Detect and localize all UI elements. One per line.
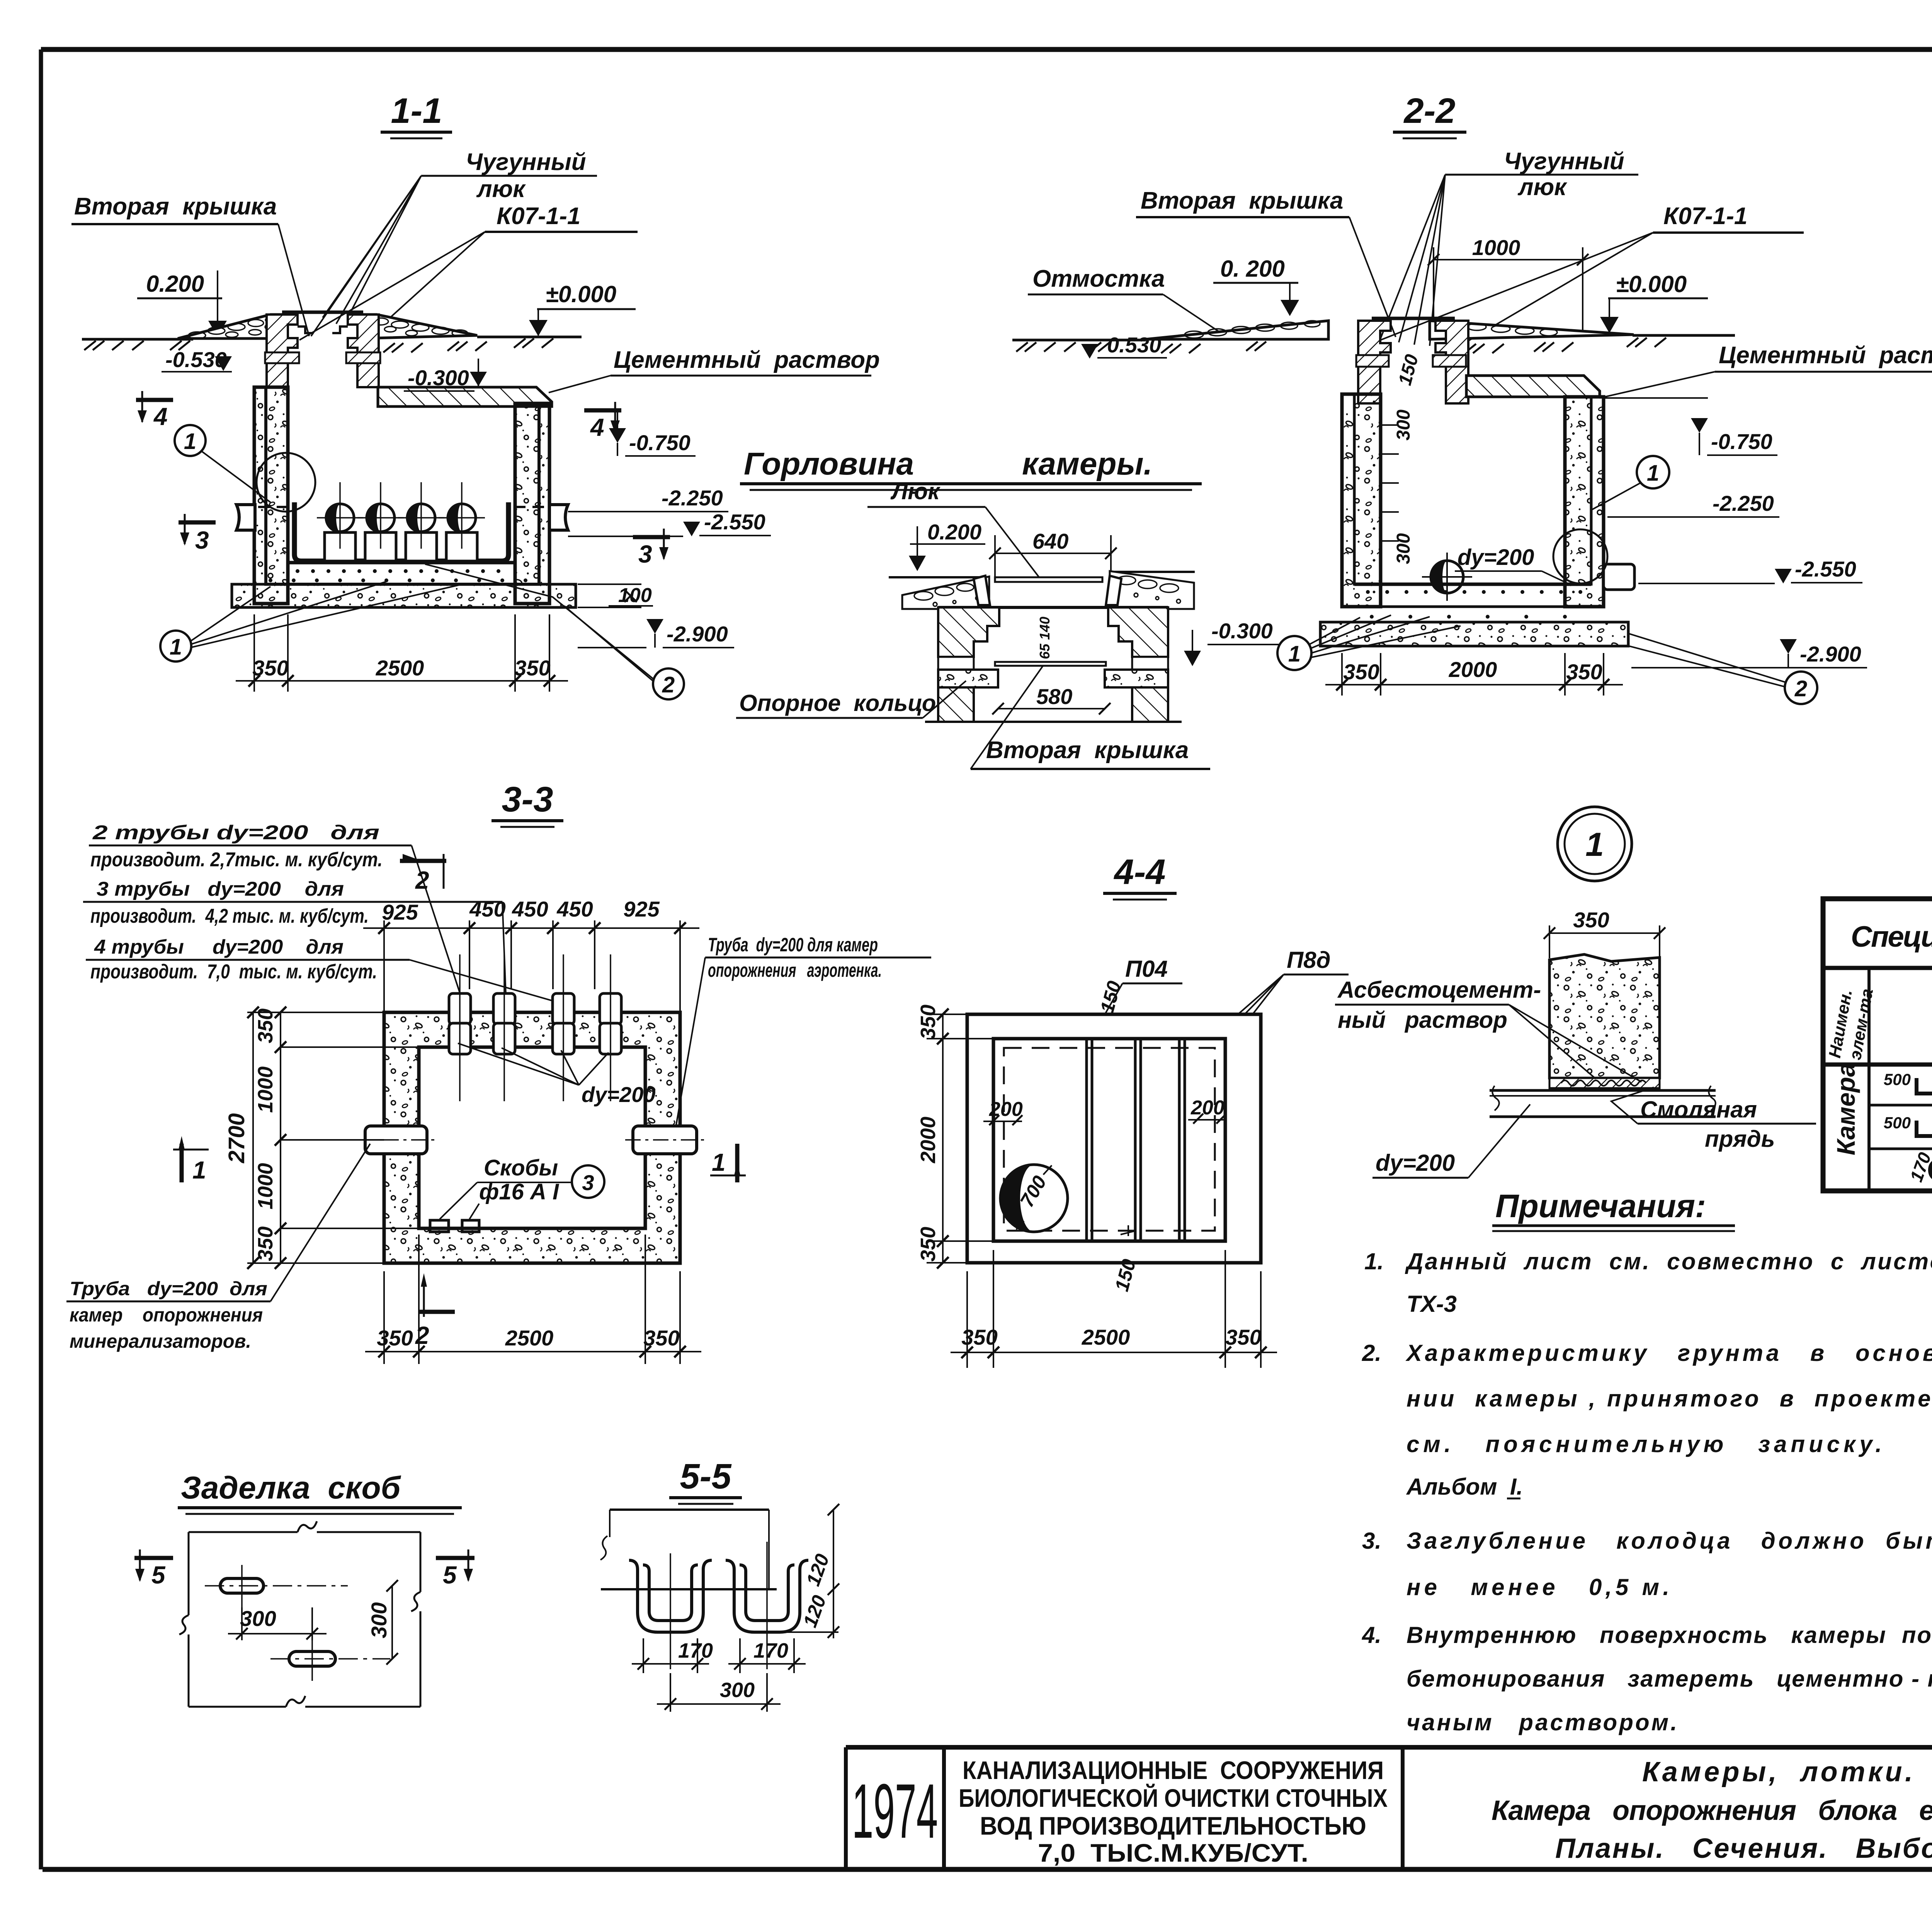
- svg-text:350: 350: [514, 656, 550, 680]
- svg-text:-2.900: -2.900: [1800, 642, 1861, 666]
- svg-text:-0.750: -0.750: [629, 430, 690, 455]
- top slab hatched band with right slope: [1466, 376, 1600, 397]
- asbestos packing strip with spring: [1549, 1078, 1660, 1088]
- dashed waterline: [258, 506, 289, 508]
- svg-text:чаным раствором.: чаным раствором.: [1406, 1709, 1677, 1735]
- section mark 2 top: [400, 854, 446, 889]
- svg-text:300: 300: [367, 1602, 391, 1638]
- svg-text:350: 350: [1566, 660, 1602, 684]
- svg-text:Скобы: Скобы: [484, 1155, 558, 1180]
- svg-text:Труба dy=200 для камер: Труба dy=200 для камер: [708, 934, 878, 956]
- left brick wall: [938, 607, 999, 657]
- circled 2 right with leaders: [1785, 672, 1817, 704]
- svg-text:7,0 ТЫС.М.КУБ/СУТ.: 7,0 ТЫС.М.КУБ/СУТ.: [1038, 1838, 1308, 1867]
- ground hatch: [1016, 338, 1666, 353]
- circled 1 top left with leader: [175, 425, 206, 456]
- svg-text:350: 350: [917, 1227, 940, 1262]
- svg-text:-2.550: -2.550: [1795, 557, 1856, 581]
- svg-text:2700: 2700: [224, 1113, 249, 1163]
- svg-text:прядь: прядь: [1705, 1126, 1775, 1152]
- svg-text:1: 1: [1585, 826, 1604, 863]
- svg-text:люк: люк: [476, 176, 526, 202]
- outer square: [967, 1014, 1261, 1263]
- ground line left and right: [82, 338, 193, 341]
- svg-text:нии камеры , принятого в пр: нии камеры , принятого в проекте,: [1406, 1386, 1932, 1412]
- section mark 3 right: [633, 529, 670, 560]
- sketches in Эскиз column: [1917, 1078, 1932, 1181]
- svg-text:450: 450: [512, 897, 548, 921]
- svg-text:2.: 2.: [1362, 1340, 1381, 1366]
- svg-text:-2.250: -2.250: [1713, 491, 1774, 515]
- plan square walls: [384, 1012, 680, 1263]
- svg-text:2: 2: [1794, 676, 1807, 701]
- section mark 4 right: [584, 402, 621, 434]
- svg-text:350: 350: [254, 1226, 277, 1261]
- svg-text:2000: 2000: [1449, 657, 1497, 682]
- circled 1 with fan leaders: [1277, 636, 1311, 670]
- svg-text:Асбестоцемент-: Асбестоцемент-: [1337, 977, 1541, 1003]
- svg-text:производит. 7,0 тыс. м. куб/: производит. 7,0 тыс. м. куб/сут.: [90, 961, 377, 983]
- side pipes: [365, 1126, 697, 1154]
- svg-text:4: 4: [153, 403, 168, 430]
- svg-text:ТХ-3: ТХ-3: [1406, 1291, 1457, 1317]
- svg-text:170: 170: [678, 1639, 713, 1662]
- svg-text:640: 640: [1032, 529, 1068, 553]
- svg-text:Камера: Камера: [1832, 1063, 1860, 1155]
- svg-text:4 трубы dy=200 для: 4 трубы dy=200 для: [94, 936, 344, 958]
- manhole cover profile on top: [282, 311, 363, 314]
- svg-text:dy=200: dy=200: [1376, 1150, 1455, 1176]
- section marks 1 left/right: [173, 1136, 209, 1182]
- svg-text:люк: люк: [1517, 174, 1567, 201]
- right brick wall: [1108, 607, 1168, 657]
- svg-text:-2.900: -2.900: [667, 622, 728, 646]
- bottom ground line: [925, 721, 1182, 723]
- svg-text:200: 200: [989, 1098, 1023, 1121]
- svg-text:0.200: 0.200: [927, 520, 981, 544]
- bottom dim chain: [365, 1235, 701, 1364]
- svg-text:5-5: 5-5: [680, 1457, 732, 1496]
- cover plate: [995, 577, 1102, 582]
- svg-text:2500: 2500: [376, 656, 424, 680]
- slots: [220, 1578, 264, 1593]
- left wall: [254, 387, 288, 604]
- foundation slab: [1320, 622, 1628, 646]
- top ring band: [938, 606, 1168, 609]
- concrete pier: [1549, 954, 1660, 1078]
- svg-text:Камера опорожнения блока: Камера опорожнения блока емкостей.: [1492, 1795, 1932, 1826]
- svg-text:925: 925: [382, 900, 418, 924]
- svg-text:450: 450: [556, 897, 593, 921]
- project name stencil text: [959, 1756, 1388, 1867]
- svg-text:Люк: Люк: [890, 478, 940, 504]
- neck walls with hatch: [267, 315, 298, 387]
- open detail circle on right wall: [1553, 529, 1607, 583]
- pipe circle half filled: [1431, 561, 1463, 593]
- ground hatch ticks: [84, 338, 553, 352]
- svg-text:1: 1: [170, 634, 182, 660]
- svg-text:0. 200: 0. 200: [1220, 256, 1285, 282]
- svg-text:КАНАЛИЗАЦИОННЫЕ СООРУЖЕНИЯ: КАНАЛИЗАЦИОННЫЕ СООРУЖЕНИЯ: [963, 1756, 1384, 1784]
- ground lines: [889, 576, 989, 578]
- ground lines: [1012, 339, 1146, 342]
- circled 1 bottom with leaders: [160, 631, 191, 662]
- svg-text:бетонирования затереть цем: бетонирования затереть цементно - пес-: [1406, 1666, 1932, 1692]
- svg-text:Заделка скоб: Заделка скоб: [181, 1470, 401, 1505]
- svg-text:Вторая крышка: Вторая крышка: [74, 193, 277, 220]
- right staple U: [726, 1560, 808, 1632]
- svg-text:300: 300: [1393, 410, 1414, 440]
- circled 1 right with leader: [1637, 456, 1669, 488]
- svg-text:2: 2: [415, 866, 429, 894]
- 150 ticks on inner left wall: [1381, 425, 1399, 541]
- svg-text:350: 350: [961, 1325, 997, 1349]
- svg-text:500: 500: [1884, 1114, 1911, 1132]
- svg-text:ный раствор: ный раствор: [1338, 1007, 1507, 1033]
- svg-text:-0.300: -0.300: [1211, 619, 1273, 643]
- svg-text:К07-1-1: К07-1-1: [497, 203, 580, 230]
- svg-text:1000: 1000: [254, 1163, 277, 1209]
- second cover plate: [995, 662, 1106, 666]
- svg-text:350: 350: [643, 1326, 679, 1350]
- svg-text:2000: 2000: [917, 1117, 940, 1163]
- slab joint double lines: [1087, 1039, 1185, 1241]
- interior floor & slab: [1354, 583, 1591, 586]
- svg-text:Вторая крышка: Вторая крышка: [986, 737, 1189, 764]
- svg-text:3-3: 3-3: [502, 780, 553, 819]
- svg-text:1000: 1000: [1472, 235, 1520, 260]
- svg-text:±0.000: ±0.000: [546, 281, 616, 307]
- svg-text:2: 2: [415, 1321, 429, 1349]
- svg-text:0.200: 0.200: [146, 271, 204, 297]
- svg-text:5: 5: [443, 1561, 457, 1589]
- svg-text:минерализаторов.: минерализаторов.: [70, 1330, 251, 1352]
- svg-text:Чугунный: Чугунный: [1504, 148, 1624, 175]
- detail circle on left wall: [257, 453, 315, 512]
- label Труба dy=200 для камер опорожнения аэротенка: [708, 934, 882, 981]
- wire leader to hatch cover: [336, 176, 421, 324]
- underline I in Альбом I. note2: [1507, 1498, 1520, 1500]
- pipes inside: [325, 504, 477, 561]
- circled 2 right with leaders: [653, 668, 684, 699]
- svg-text:1: 1: [712, 1148, 726, 1176]
- center lines through staples: [670, 1542, 767, 1669]
- surface line: [601, 1588, 777, 1590]
- svg-text:2500: 2500: [505, 1326, 554, 1350]
- svg-text:2500: 2500: [1082, 1325, 1130, 1349]
- side pipe stubs: [236, 505, 568, 530]
- svg-text:100: 100: [618, 584, 652, 607]
- svg-text:-0.750: -0.750: [1711, 429, 1772, 454]
- section mark 2 bottom: [418, 1273, 455, 1317]
- svg-text:1: 1: [1647, 461, 1659, 486]
- svg-text:Заглубление колодца должно: Заглубление колодца должно быть: [1406, 1528, 1932, 1554]
- label Труба dy=200 для камер опорожнения минерализаторов: [70, 1278, 267, 1352]
- left dim chain: [247, 1012, 419, 1263]
- pipe labels left: [90, 821, 383, 983]
- interior floor and slab: [288, 561, 515, 565]
- section marks 5: [134, 1549, 173, 1582]
- svg-text:350: 350: [1225, 1325, 1261, 1349]
- svg-text:350: 350: [1573, 908, 1609, 932]
- svg-text:±0.000: ±0.000: [1616, 271, 1687, 297]
- dim chain 925 450 450 450 925: [382, 897, 660, 924]
- bottom dim chain: [951, 1250, 1277, 1368]
- bottom dimension chain: [236, 614, 568, 692]
- svg-text:Внутреннюю поверхность кам: Внутреннюю поверхность камеры после: [1406, 1622, 1932, 1648]
- left staple U: [629, 1560, 712, 1632]
- svg-text:Цементный раствор: Цементный раствор: [1719, 342, 1932, 369]
- chamber walls: [1342, 394, 1381, 607]
- svg-text:350: 350: [254, 1009, 277, 1043]
- support ring legs: [974, 576, 990, 605]
- svg-text:П04: П04: [1125, 956, 1168, 982]
- svg-text:-0.300: -0.300: [408, 366, 469, 390]
- neck walls hatched: [1358, 321, 1391, 403]
- svg-text:4.: 4.: [1362, 1622, 1381, 1648]
- right side pipe stub: [1604, 564, 1634, 590]
- svg-text:3: 3: [195, 526, 209, 554]
- svg-text:350: 350: [252, 656, 288, 680]
- circle hole 700: [1000, 1165, 1068, 1232]
- apron mounds with cobbles: [902, 577, 989, 609]
- svg-text:Спецификация ар-ры на о: Спецификация ар-ры на один эл-т: [1851, 920, 1932, 953]
- dashed inset: [1004, 1048, 1215, 1231]
- chamber top slab hatched: [378, 387, 552, 406]
- svg-text:3.: 3.: [1362, 1528, 1381, 1554]
- top line with break: [610, 1509, 769, 1511]
- foundation slab: [232, 584, 576, 607]
- pipes through top wall: [449, 993, 621, 1054]
- svg-text:925: 925: [623, 897, 660, 921]
- svg-text:4-4: 4-4: [1114, 852, 1166, 892]
- svg-text:производит. 4,2 тыс. м. куб/с: производит. 4,2 тыс. м. куб/сут.: [90, 905, 369, 927]
- svg-text:65 140: 65 140: [1037, 617, 1053, 659]
- svg-text:Чугунный: Чугунный: [466, 149, 586, 175]
- svg-text:200: 200: [1190, 1097, 1225, 1119]
- svg-text:350: 350: [1343, 660, 1379, 684]
- svg-text:3: 3: [582, 1170, 594, 1195]
- svg-text:1: 1: [192, 1156, 206, 1184]
- svg-text:580: 580: [1036, 684, 1072, 709]
- staples in plan: [430, 1220, 449, 1232]
- bottom dimension chain: [1325, 653, 1623, 696]
- svg-text:ВОД ПРОИЗВОДИТЕЛЬНОСТЬЮ: ВОД ПРОИЗВОДИТЕЛЬНОСТЬЮ: [980, 1811, 1366, 1840]
- svg-text:Альбом I.: Альбом I.: [1406, 1474, 1523, 1500]
- svg-text:опорожнения аэротенка.: опорожнения аэротенка.: [708, 959, 882, 981]
- svg-text:450: 450: [469, 897, 505, 921]
- right wall: [515, 403, 549, 604]
- svg-text:350: 350: [917, 1005, 940, 1039]
- svg-text:5: 5: [151, 1561, 166, 1589]
- svg-text:Вторая крышка: Вторая крышка: [1141, 187, 1343, 214]
- svg-text:камер опорожнения: камер опорожнения: [70, 1304, 263, 1326]
- svg-text:3 трубы dy=200 для: 3 трубы dy=200 для: [97, 878, 344, 900]
- svg-text:300: 300: [1393, 533, 1414, 564]
- svg-text:-2.550: -2.550: [704, 510, 765, 534]
- svg-text:2-2: 2-2: [1403, 91, 1456, 131]
- svg-text:1.: 1.: [1364, 1248, 1384, 1274]
- apron mounds: [178, 315, 286, 338]
- svg-text:производит. 2,7тыс. м. куб/сут: производит. 2,7тыс. м. куб/сут.: [90, 849, 383, 871]
- svg-text:1974: 1974: [852, 1768, 938, 1854]
- svg-text:-2.250: -2.250: [662, 486, 723, 510]
- section mark 3 left: [179, 514, 216, 546]
- svg-text:300: 300: [720, 1679, 755, 1702]
- svg-text:dy=200: dy=200: [582, 1082, 656, 1107]
- svg-text:dy=200: dy=200: [1458, 545, 1534, 570]
- inner solid square: [993, 1039, 1225, 1241]
- plate rectangle with break marks: [179, 1521, 420, 1707]
- svg-text:1-1: 1-1: [391, 91, 442, 131]
- svg-text:Смоляная: Смоляная: [1640, 1097, 1757, 1122]
- pipe below: [1490, 1090, 1716, 1117]
- svg-text:1: 1: [1288, 641, 1301, 667]
- svg-text:Цементный раствор: Цементный раствор: [614, 347, 880, 373]
- apron mounds: [1146, 321, 1328, 339]
- svg-text:170: 170: [753, 1639, 788, 1662]
- svg-text:камеры.: камеры.: [1022, 446, 1152, 481]
- svg-text:500: 500: [1884, 1070, 1911, 1088]
- svg-text:Опорное кольцо: Опорное кольцо: [739, 690, 936, 716]
- sheet content name: [1492, 1757, 1932, 1864]
- svg-text:1: 1: [184, 429, 196, 454]
- svg-text:Труба dy=200 для: Труба dy=200 для: [70, 1278, 267, 1299]
- svg-text:П8д: П8д: [1287, 947, 1331, 973]
- big circled 1: [1558, 807, 1632, 881]
- svg-text:1000: 1000: [254, 1066, 277, 1113]
- svg-text:300: 300: [240, 1606, 276, 1631]
- svg-text:0.530: 0.530: [1107, 333, 1161, 357]
- svg-text:4: 4: [590, 413, 604, 441]
- svg-text:2 трубы dy=200 для: 2 трубы dy=200 для: [92, 821, 379, 844]
- svg-text:2: 2: [662, 672, 675, 697]
- svg-text:Горловина: Горловина: [744, 446, 914, 481]
- svg-text:350: 350: [377, 1326, 413, 1350]
- svg-text:БИОЛОГИЧЕСКОЙ ОЧИСТКИ СТОЧНЫХ: БИОЛОГИЧЕСКОЙ ОЧИСТКИ СТОЧНЫХ: [959, 1783, 1388, 1812]
- leaders from labels to pipes: [412, 845, 464, 1005]
- svg-text:см. пояснительную записку.: см. пояснительную записку.: [1406, 1431, 1882, 1457]
- svg-text:Примечания:: Примечания:: [1495, 1188, 1706, 1224]
- section mark 4 left: [136, 391, 173, 423]
- svg-text:3: 3: [638, 540, 652, 568]
- interior outline: [1354, 394, 1591, 584]
- svg-text:Отмостка: Отмостка: [1032, 265, 1165, 292]
- left dim chain: [927, 1014, 993, 1263]
- svg-text:К07-1-1: К07-1-1: [1663, 203, 1747, 230]
